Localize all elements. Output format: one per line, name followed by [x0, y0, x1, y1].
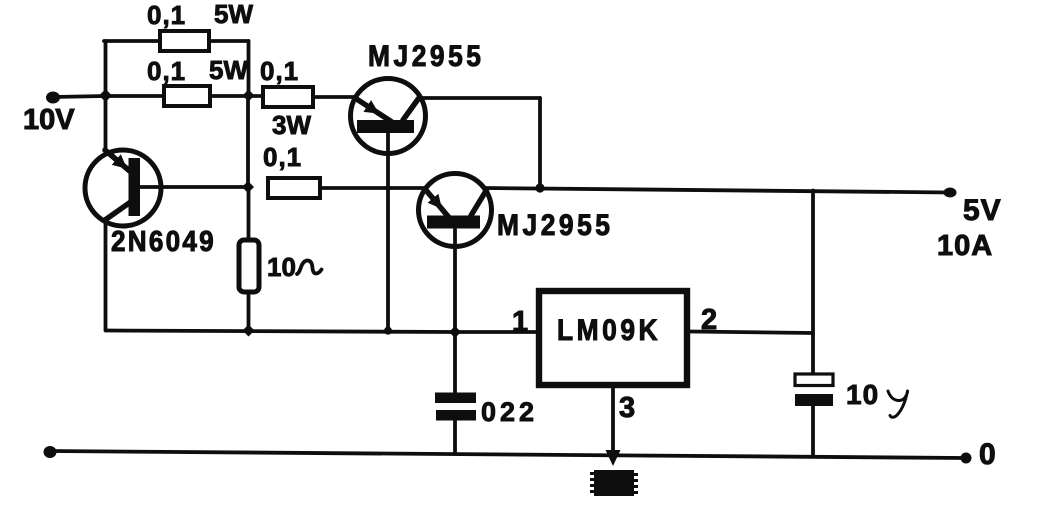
svg-text:3W: 3W [272, 110, 311, 140]
capacitor C2 10u bottom plate [795, 394, 833, 406]
node F junction [384, 327, 392, 335]
wire node B down to node C [246, 96, 250, 187]
terminal input dot [46, 92, 60, 104]
resistor R5 10ohm [239, 240, 259, 292]
wire lower bus to U1 pin1 [106, 331, 536, 333]
wire collector drop vertical [538, 98, 542, 188]
transistor Q3 MJ2955 (lower) [419, 174, 492, 247]
ground arrow [606, 450, 621, 466]
terminal output dot [944, 188, 957, 198]
svg-text:LM09K: LM09K [557, 312, 661, 346]
wire U1 pin3 vertical [611, 388, 615, 450]
capacitor C1 022 top plate [435, 393, 476, 404]
resistor R4 0,1 [268, 178, 320, 198]
svg-text:5V: 5V [963, 194, 1002, 227]
svg-text:1: 1 [512, 306, 528, 338]
svg-text:2N6049: 2N6049 [111, 225, 216, 258]
wire C1 to ground rail [453, 421, 457, 453]
wire R5 to bottom node [247, 292, 251, 330]
terminal ground right dot [961, 453, 972, 464]
IC U1 LM09K box [539, 291, 687, 385]
node G junction [449, 326, 461, 338]
svg-text:10: 10 [267, 252, 296, 282]
wire Q2 collector top [421, 96, 540, 100]
svg-text:MJ2955: MJ2955 [368, 38, 485, 72]
wire top-loop right vertical [247, 41, 251, 96]
node B junction [243, 90, 255, 102]
wire R2 to node B [210, 94, 263, 98]
label C2 10u [846, 379, 908, 417]
transistor Q2 MJ2955 (upper) [351, 79, 426, 154]
svg-text:10A: 10A [937, 230, 993, 262]
svg-text:3: 3 [619, 392, 635, 424]
svg-text:022: 022 [481, 397, 538, 427]
node E junction [243, 325, 255, 337]
svg-text:0,1: 0,1 [260, 56, 299, 86]
wire top-loop upper left [104, 39, 160, 43]
node junction left [99, 89, 112, 102]
wire output rail [485, 188, 950, 193]
svg-text:5W: 5W [214, 0, 253, 29]
wire U1 pin2 to C2 [690, 332, 813, 334]
wire top-loop left vertical [104, 41, 108, 96]
svg-text:0,1: 0,1 [147, 0, 186, 30]
wire R4 to Q3 emitter [320, 186, 426, 190]
label R5 10 ohm [267, 252, 322, 282]
wire node C down to R5 [247, 187, 251, 241]
svg-text:0: 0 [979, 438, 996, 471]
wire Q1 collector vertical lower [104, 219, 108, 331]
wire top-loop upper right [209, 39, 249, 43]
svg-text:5W: 5W [209, 55, 248, 85]
svg-text:MJ2955: MJ2955 [497, 207, 614, 241]
node D collector junction [535, 183, 544, 192]
wire Q2 base vertical [386, 134, 390, 331]
terminal ground left dot [44, 446, 57, 458]
transistor Q1 2N6049 [85, 150, 161, 226]
svg-text:10: 10 [846, 379, 879, 410]
wire Q1 base to node C [140, 185, 248, 189]
wire R3 to Q2 emitter [313, 95, 356, 99]
capacitor C1 022 bottom plate [436, 410, 476, 421]
wire ground rail [50, 451, 965, 458]
node C junction [242, 181, 254, 193]
ground symbol block [590, 470, 638, 496]
wire node G to C1 [453, 332, 457, 393]
svg-text:0,1: 0,1 [147, 56, 186, 86]
resistor R3 0,1 3W [263, 87, 313, 107]
wire Q1 emitter vertical upper [104, 96, 108, 152]
resistor R1 0,1 5W (top) [160, 31, 209, 51]
svg-text:10V: 10V [23, 104, 75, 136]
wire output to C2 vertical [811, 191, 815, 375]
capacitor C2 10u top plate [795, 374, 833, 386]
wire input rail [53, 96, 164, 97]
wire C2 to ground rail [811, 406, 815, 456]
resistor R2 0,1 5W [164, 86, 210, 106]
wire Q3 base vertical [453, 230, 457, 333]
svg-text:0,1: 0,1 [263, 142, 302, 172]
